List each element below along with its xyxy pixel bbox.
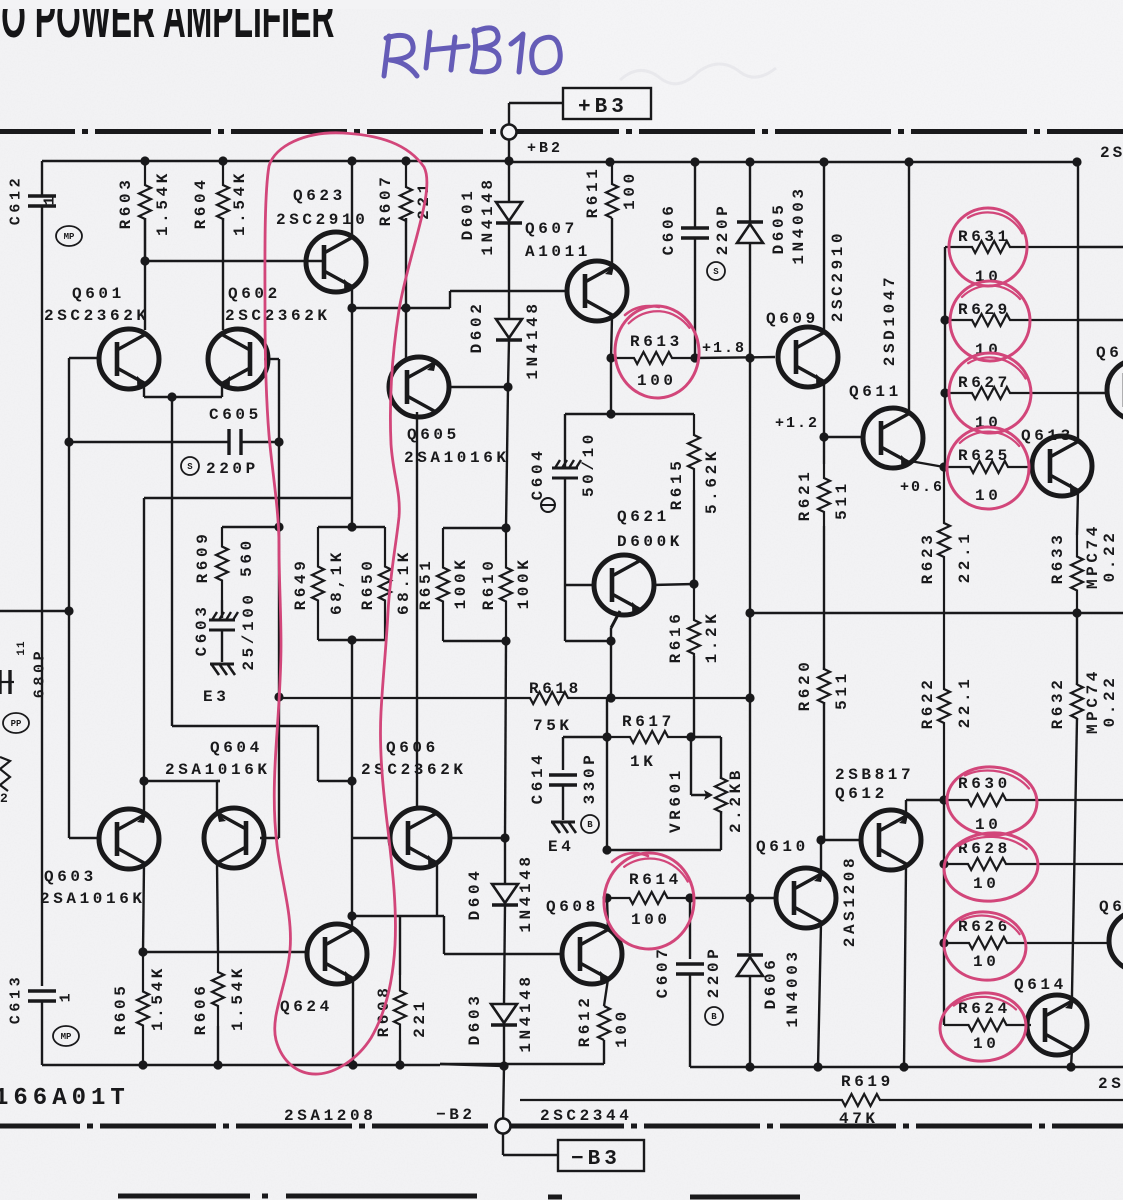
svg-text:Q611: Q611 xyxy=(849,383,902,401)
wire R610 column upper xyxy=(506,387,508,528)
svg-text:Q608: Q608 xyxy=(546,898,599,916)
polarity mark xyxy=(541,498,555,512)
svg-text:2SC2362K: 2SC2362K xyxy=(225,307,331,325)
wire Q606 collector node to D604 xyxy=(452,837,505,839)
resistor R631 xyxy=(945,241,1078,253)
junction dot D604 top xyxy=(500,833,509,842)
S mark xyxy=(181,457,199,475)
svg-text:S: S xyxy=(713,267,719,277)
svg-text:10: 10 xyxy=(975,487,1001,505)
svg-text:R618: R618 xyxy=(529,680,582,698)
resistor R627 xyxy=(945,387,1078,399)
svg-text:Q624: Q624 xyxy=(280,998,333,1016)
svg-text:1N4003: 1N4003 xyxy=(790,185,808,264)
junction dot R625 left node xyxy=(939,462,948,471)
svg-text:2SA1016K: 2SA1016K xyxy=(40,890,146,908)
svg-text:1N4148: 1N4148 xyxy=(524,300,542,379)
svg-text:10: 10 xyxy=(975,816,1001,834)
step down xyxy=(443,916,445,954)
junction dot Q623 base xyxy=(140,256,149,265)
wire Q605 base node to step xyxy=(406,307,450,309)
svg-text:2SC2344: 2SC2344 xyxy=(540,1107,632,1125)
wire R614 to Q610 base xyxy=(690,897,776,899)
svg-text:Q6: Q6 xyxy=(1096,344,1122,362)
svg-text:MPC74: MPC74 xyxy=(1084,668,1102,734)
junction dot Q623 emitter node xyxy=(347,303,356,312)
resistor R628 xyxy=(944,858,1123,870)
svg-text:E4: E4 xyxy=(548,838,574,856)
svg-text:25/100: 25/100 xyxy=(240,591,258,670)
wire Q607 emitter down xyxy=(611,317,612,358)
wire Q624 emitter to bottom rail xyxy=(352,979,354,1065)
wire R627 to right edge transistor xyxy=(1078,392,1108,394)
wire Q604 emitter down xyxy=(217,863,218,952)
svg-text:1N4003: 1N4003 xyxy=(784,948,802,1027)
svg-text:+1.2: +1.2 xyxy=(775,415,819,432)
svg-text:R651: R651 xyxy=(417,558,435,611)
node -B2 terminal ring xyxy=(496,1119,511,1134)
svg-text:Q614: Q614 xyxy=(1014,976,1067,994)
wire R617 node to VR601 top xyxy=(691,736,721,738)
svg-text:22.1: 22.1 xyxy=(956,531,974,584)
svg-text:R610: R610 xyxy=(480,558,498,611)
diode D606 1N4003 xyxy=(749,898,751,953)
transistor Q621 D600K xyxy=(594,555,654,615)
wire C604 branch left xyxy=(565,413,611,415)
transistor Q603 2SA1016K xyxy=(99,809,159,869)
svg-text:Q623: Q623 xyxy=(293,187,346,205)
wire Q601 base column xyxy=(68,358,70,838)
svg-text:D600K: D600K xyxy=(617,533,683,551)
+B2 rail (dash-dot) xyxy=(0,129,75,134)
wire Q605 emitter down to Q606 xyxy=(416,412,418,810)
transistor Q612 2SB817 xyxy=(861,810,921,870)
wire R611 to Q607 collector xyxy=(611,218,613,264)
wire Q614 emitter down xyxy=(1071,1049,1072,1067)
junction dot Q610 base at D606 column xyxy=(745,893,754,902)
svg-text:PP: PP xyxy=(11,719,22,729)
faint pencil ghost marks xyxy=(620,64,776,84)
bottom-left rail wire xyxy=(42,1064,440,1066)
pink circle around R630 xyxy=(945,764,1040,838)
wire +B2 ring to top distribution wire xyxy=(508,140,510,163)
step up to Q607 base level xyxy=(449,291,451,308)
svg-text:R632: R632 xyxy=(1049,677,1067,730)
+B3 box xyxy=(563,88,651,119)
svg-text:100: 100 xyxy=(631,911,671,929)
resistor R606 xyxy=(212,952,224,1026)
pink circle around R627 xyxy=(944,348,1035,437)
svg-text:Q604: Q604 xyxy=(210,739,263,757)
potentiometer VR601 2.2KB xyxy=(720,737,722,779)
bottom edge scan rail fragments xyxy=(118,1196,800,1197)
svg-text:68.1K: 68.1K xyxy=(395,549,413,615)
svg-text:+B3: +B3 xyxy=(578,96,628,119)
collector rail wire xyxy=(144,780,220,782)
wire +B3 to +B2 node xyxy=(509,102,563,104)
resistor R612 xyxy=(598,1006,610,1040)
pink circle around R624 xyxy=(938,990,1029,1064)
svg-text:166A01T: 166A01T xyxy=(0,1085,130,1112)
svg-text:2SA1208: 2SA1208 xyxy=(284,1107,376,1125)
svg-text:D604: D604 xyxy=(466,868,484,921)
step wire right 2 xyxy=(318,780,351,782)
wire Q612 emitter down xyxy=(904,866,906,1067)
junction dot R630 left xyxy=(939,795,948,804)
svg-text:2AS1208: 2AS1208 xyxy=(841,855,859,947)
wire D601 to D602 xyxy=(508,223,510,319)
svg-text:1: 1 xyxy=(42,193,59,206)
svg-text:1N4148: 1N4148 xyxy=(517,973,535,1052)
svg-text:R627: R627 xyxy=(958,374,1011,392)
transistor Q614 xyxy=(1027,995,1087,1055)
svg-text:R629: R629 xyxy=(958,301,1011,319)
svg-text:R606: R606 xyxy=(192,983,210,1036)
pink circle around R628 xyxy=(941,829,1041,905)
resistor R610 xyxy=(500,528,512,641)
svg-text:R615: R615 xyxy=(668,458,686,511)
svg-text:R609: R609 xyxy=(194,531,212,584)
svg-text:1.54K: 1.54K xyxy=(231,170,249,236)
resistor R609 xyxy=(216,527,228,600)
transistor Q623 2SC2910 xyxy=(306,232,366,292)
wire Q623 emitter down xyxy=(351,287,353,308)
base lead Q601 xyxy=(69,357,99,359)
wire R618 run xyxy=(279,692,750,704)
title POWER AMPLIFIER (top cropped) xyxy=(1,0,334,51)
svg-text:68,1K: 68,1K xyxy=(328,549,346,615)
wire Q610 collector up xyxy=(820,840,822,874)
partial transistor at right edge top xyxy=(1107,360,1123,420)
svg-text:R620: R620 xyxy=(796,659,814,712)
svg-text:R605: R605 xyxy=(112,983,130,1036)
svg-text:680P: 680P xyxy=(32,648,49,698)
svg-text:1N4148: 1N4148 xyxy=(517,853,535,932)
junction dot Q605 collector node xyxy=(503,382,512,391)
svg-text:R624: R624 xyxy=(958,1000,1011,1018)
junction dot R613 left xyxy=(606,353,615,362)
wire box bottom to R618 node xyxy=(351,640,353,698)
handwritten RHB10 xyxy=(384,28,560,76)
svg-text:Q603: Q603 xyxy=(44,868,97,886)
junction dot emitters xyxy=(167,392,176,401)
wire Q612 collector up-right xyxy=(905,800,907,816)
svg-text:220P: 220P xyxy=(714,203,732,256)
resistor R616 xyxy=(688,584,700,656)
junction dot Q621 collector xyxy=(606,636,615,645)
svg-text:R623: R623 xyxy=(919,532,937,585)
svg-text:B: B xyxy=(587,820,593,830)
transistor Q613 xyxy=(1032,436,1092,496)
wire D604 to D603 xyxy=(504,905,505,1004)
-B2 rail (dash-dot) xyxy=(0,1124,80,1129)
wire Q605 collector right xyxy=(449,386,508,388)
junction dots bottom-right rail xyxy=(745,1062,754,1071)
wire Q606 emitter down xyxy=(436,863,438,916)
junction dot C605 left xyxy=(64,437,73,446)
svg-text:R614: R614 xyxy=(629,871,682,889)
diode D603 1N4148 xyxy=(491,1004,517,1023)
wire Q621 emitter right xyxy=(652,584,694,585)
svg-text:10: 10 xyxy=(973,1035,999,1053)
pink circle around R631 xyxy=(944,203,1032,291)
junction dot Q614 emitter at bottom rail xyxy=(1066,1062,1075,1071)
junction dot box top xyxy=(347,522,356,531)
junction dot box bottom xyxy=(347,635,356,644)
svg-text:1.54K: 1.54K xyxy=(154,170,172,236)
svg-text:R613: R613 xyxy=(630,333,683,351)
transistor Q609 2SC2910 xyxy=(778,327,838,387)
svg-text:MP: MP xyxy=(64,232,75,242)
resistor R632 xyxy=(1076,613,1078,685)
svg-text:S: S xyxy=(187,462,193,472)
svg-text:−B2: −B2 xyxy=(436,1106,476,1124)
svg-text:R633: R633 xyxy=(1049,532,1067,585)
resistor R604 xyxy=(217,161,229,219)
wire Q603 collector up xyxy=(143,781,145,814)
capacitor C614 330P xyxy=(563,736,609,738)
wire R612 elbow to bottom wire xyxy=(603,1040,605,1064)
wire Q604 base lead xyxy=(260,837,279,839)
output rail wire xyxy=(750,612,1123,614)
svg-text:Q605: Q605 xyxy=(407,426,460,444)
wire Q606 base lead xyxy=(352,837,390,839)
wire Q623 collector to top rail xyxy=(351,161,353,238)
wire Q611 base lead xyxy=(824,436,861,438)
svg-text:Q612: Q612 xyxy=(835,785,888,803)
wire Q605 base lead from top xyxy=(405,308,407,358)
wire R613 to Q609 base xyxy=(695,357,775,358)
resistor R622 xyxy=(938,613,950,799)
wire R607 down to Q605 base node xyxy=(405,218,407,308)
junction dot R617 left xyxy=(602,732,611,741)
svg-text:+0.6: +0.6 xyxy=(900,479,944,496)
bottom-right rail wire xyxy=(690,1066,1123,1068)
junction dot R605 top xyxy=(138,947,147,956)
svg-text:D605: D605 xyxy=(770,202,788,255)
wire Q623 base lead xyxy=(145,260,324,262)
junction dot Q606 base node xyxy=(347,776,356,785)
transistor Q602 2SC2362K (mirrored) xyxy=(208,329,268,389)
wire Q611 emitter to R625 node xyxy=(910,461,944,467)
transistor Q604 2SA1016K (mirrored) xyxy=(204,808,264,868)
wire -B2 ring to -B3 box xyxy=(502,1133,504,1155)
wire R603 to Q601 collector xyxy=(144,218,146,330)
emitter common wire xyxy=(144,396,222,398)
capacitor C603 25/100 polarized xyxy=(221,600,223,618)
svg-text:2SC2910: 2SC2910 xyxy=(829,230,847,322)
junction dot collector rail left xyxy=(139,776,148,785)
svg-text:1K: 1K xyxy=(630,753,656,771)
svg-text:100: 100 xyxy=(613,1008,631,1048)
wire Q621 collector down xyxy=(611,611,620,628)
junction dot Q611 base xyxy=(819,432,828,441)
B mark xyxy=(705,1007,723,1025)
junction dot R614 right xyxy=(685,893,694,902)
svg-text:R611: R611 xyxy=(584,166,602,219)
junction dot E4 node xyxy=(602,845,611,854)
junction dot R627 left xyxy=(940,388,949,397)
resistor R603 xyxy=(139,161,151,261)
capacitor C606 xyxy=(694,162,696,228)
wire Q608 collector column xyxy=(606,698,608,850)
R649/R650 parallel box top xyxy=(318,526,385,528)
wire collector node to Q608 base step xyxy=(352,915,444,917)
wire Q612 base lead xyxy=(821,839,859,841)
svg-text:Q601: Q601 xyxy=(72,285,125,303)
resistor R605 xyxy=(137,952,149,1065)
diode D605 1N4003 xyxy=(749,162,751,221)
diode D602 1N4148 xyxy=(496,319,522,338)
junction dot left stub xyxy=(64,606,73,615)
svg-text:Q607: Q607 xyxy=(525,220,578,238)
resistor R607 xyxy=(400,161,412,221)
wire Q602 base lead right xyxy=(264,358,279,360)
wire Q603 emitter down xyxy=(143,864,144,952)
transistor Q606 2SC2362K xyxy=(390,808,450,868)
R651/R610 parallel box top xyxy=(443,527,506,529)
svg-text:−B3: −B3 xyxy=(571,1148,621,1171)
resistor R633 xyxy=(1071,535,1083,612)
wire Q601 emitter to common xyxy=(143,384,145,397)
wire Q604 collector up xyxy=(216,781,218,813)
pink loop around Q623/Q624 differential branch xyxy=(265,133,427,1074)
resistor R623 xyxy=(938,467,950,613)
svg-text:A1011: A1011 xyxy=(525,243,591,261)
box bottom xyxy=(318,639,385,641)
wire C612 column xyxy=(41,161,43,196)
resistor R621 xyxy=(823,437,825,464)
junction dot at D605 column xyxy=(745,353,754,362)
wire Q608 emitter down xyxy=(604,979,608,1006)
transistor Q608 2SC2344 xyxy=(562,924,622,984)
MP mark bottom xyxy=(53,1026,79,1046)
svg-text:R607: R607 xyxy=(377,174,395,227)
capacitor C612 xyxy=(28,194,56,197)
transistor Q607 A1011 xyxy=(567,261,627,321)
wire Q610 emitter down xyxy=(818,923,821,1067)
junction dots on top wire xyxy=(140,156,149,165)
svg-text:MP: MP xyxy=(61,1032,72,1042)
resistor R617 xyxy=(607,731,691,743)
resistor fragment at left edge xyxy=(0,757,10,791)
diode D604 1N4148 xyxy=(504,838,506,884)
wire down to Q606 base xyxy=(351,698,353,916)
wire center column to Q610 base xyxy=(749,698,751,898)
diode D601 1N4148 xyxy=(508,162,510,202)
svg-text:Q602: Q602 xyxy=(228,285,281,303)
svg-text:+1.8: +1.8 xyxy=(702,340,746,357)
wire Q602 base column down xyxy=(278,359,280,838)
svg-text:C606: C606 xyxy=(660,203,678,256)
resistor R630 xyxy=(944,794,1123,806)
svg-text:2SC2362K: 2SC2362K xyxy=(44,307,150,325)
svg-text:1.54K: 1.54K xyxy=(149,965,167,1031)
capacitor C604 50/10 xyxy=(564,414,566,467)
svg-text:MPC74: MPC74 xyxy=(1084,523,1102,589)
wire Q607 emitter to R613/C604 xyxy=(610,358,612,414)
svg-text:R621: R621 xyxy=(796,469,814,522)
svg-text:2SA1016K: 2SA1016K xyxy=(165,761,271,779)
svg-text:100K: 100K xyxy=(515,557,533,610)
junction dot E3/R618 node xyxy=(274,692,283,701)
wire D602 down to Q605 collector node xyxy=(508,340,509,387)
junction dot R617 right xyxy=(686,732,695,741)
svg-text:2S: 2S xyxy=(1100,144,1123,162)
junction dot D603 bottom / -B2 tap xyxy=(499,1061,508,1070)
wire emitters rail xyxy=(144,497,352,499)
svg-text:C612: C612 xyxy=(8,175,25,225)
pink circle around R614 xyxy=(600,849,698,952)
svg-text:R649: R649 xyxy=(292,558,310,611)
svg-text:+B2: +B2 xyxy=(527,140,563,157)
wire Q623 node down to R649 box xyxy=(351,308,353,527)
MP mark top xyxy=(56,226,82,246)
wire Q614 collector up xyxy=(1071,994,1073,1001)
svg-text:2SB817: 2SB817 xyxy=(835,766,914,784)
wire to Q605 base xyxy=(352,307,404,309)
svg-text:220P: 220P xyxy=(705,946,723,999)
transistor Q611 2SD1047 xyxy=(863,408,923,468)
svg-text:VR601: VR601 xyxy=(667,767,685,833)
resistor R615 xyxy=(688,414,700,490)
resistor R624 xyxy=(944,1019,1031,1031)
junction dot box2 top xyxy=(501,523,510,532)
svg-text:E3: E3 xyxy=(203,688,229,706)
svg-text:C604: C604 xyxy=(529,448,547,501)
partial transistor right edge bottom xyxy=(1109,911,1123,971)
svg-text:Q613: Q613 xyxy=(1021,427,1074,445)
svg-text:R619: R619 xyxy=(841,1073,894,1091)
svg-text:100: 100 xyxy=(637,372,677,390)
wire Q609 collector to top xyxy=(823,162,825,334)
step wire down xyxy=(317,726,319,781)
wire Q624 collector xyxy=(351,916,353,930)
svg-text:11: 11 xyxy=(16,640,28,655)
wire R610 column down to D604 xyxy=(505,641,506,838)
wire C604 bottom to collector xyxy=(565,640,611,642)
R619 wire xyxy=(520,1094,1123,1106)
wire R615 top xyxy=(611,413,694,415)
svg-text:1.2K: 1.2K xyxy=(703,611,721,664)
svg-text:560: 560 xyxy=(238,537,256,577)
svg-text:R616: R616 xyxy=(667,611,685,664)
svg-text:R617: R617 xyxy=(622,713,675,731)
svg-text:2SA1016K: 2SA1016K xyxy=(404,449,510,467)
wire D603 to bottom wire xyxy=(503,1025,505,1067)
transistor Q624 2SA1208 xyxy=(307,924,367,984)
junction dot box2 bottom xyxy=(501,636,510,645)
Q608 base lead xyxy=(444,953,560,955)
wire to Q607 base xyxy=(450,290,565,292)
svg-text:330P: 330P xyxy=(581,752,599,805)
svg-text:R604: R604 xyxy=(192,177,210,230)
wire Q613 emitter down xyxy=(1077,490,1078,535)
transistor Q610 2AS1208 xyxy=(776,868,836,928)
svg-text:Q610: Q610 xyxy=(756,838,809,856)
junction dot Q624 collector node xyxy=(347,911,356,920)
svg-text:2.2KB: 2.2KB xyxy=(727,767,745,833)
top supply wire right section xyxy=(509,161,1077,163)
junction dot Q621 emitter/R615/R616 xyxy=(689,579,698,588)
svg-text:C605: C605 xyxy=(209,406,262,424)
resistor R649 xyxy=(312,527,324,640)
capacitor fragment 680P at left edge xyxy=(0,681,14,683)
S mark xyxy=(707,262,725,280)
svg-text:D601: D601 xyxy=(459,188,477,241)
resistor R620 xyxy=(823,613,825,670)
ground E3 xyxy=(210,663,234,666)
